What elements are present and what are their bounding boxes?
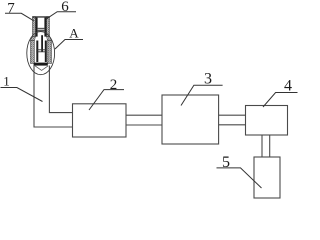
pipe box4 to box5 left line: [261, 135, 263, 157]
svg-text:2: 2: [110, 77, 118, 93]
box 4: [246, 106, 288, 136]
leader 6: [47, 12, 76, 19]
inner tube left bar (upper): [36, 18, 38, 37]
leader 3: [181, 85, 223, 105]
left flare wall: [30, 37, 35, 41]
svg-text:A: A: [69, 26, 79, 41]
bottom cap bar: [34, 63, 48, 66]
wire pipe from sensor to box 2 (outer line): [34, 66, 73, 128]
bottom cone V: [35, 66, 48, 71]
leader 7: [5, 13, 34, 20]
detail ellipse A: [27, 31, 55, 74]
pipe box2 to box3 upper line: [126, 114, 162, 116]
sensor body lower left wall: [30, 41, 34, 64]
right flare wall: [47, 37, 52, 41]
sensor body upper right wall: [47, 17, 50, 37]
pipe box4 to box5 right line: [269, 135, 271, 157]
svg-text:5: 5: [222, 154, 230, 171]
sensor body upper left wall: [32, 17, 35, 37]
pipe box3 to box4 upper line: [219, 114, 246, 116]
leader 2: [89, 90, 124, 110]
central rod: [41, 35, 43, 52]
leader A: [55, 40, 83, 50]
leader 1: [1, 88, 43, 102]
wire pipe from sensor to box 2 (inner line): [49, 66, 72, 113]
inner tube left bar (lower): [36, 41, 38, 63]
pipe box2 to box3 lower line: [126, 124, 162, 126]
svg-text:1: 1: [3, 74, 10, 89]
inner tube right bar (lower): [45, 41, 47, 63]
box 3: [162, 95, 219, 144]
piston band 6: [38, 28, 45, 31]
box 2: [73, 104, 127, 137]
inner tube right bar (upper): [44, 18, 46, 37]
pipe box3 to box4 lower line: [219, 124, 246, 126]
box 5: [254, 157, 280, 198]
lower piston lines: [36, 49, 47, 51]
leader 5: [217, 168, 262, 188]
svg-text:7: 7: [7, 1, 15, 17]
svg-text:6: 6: [61, 0, 69, 15]
sensor top cap: [32, 16, 49, 17]
sensor body lower right wall: [48, 41, 52, 64]
leader 4: [263, 93, 298, 108]
